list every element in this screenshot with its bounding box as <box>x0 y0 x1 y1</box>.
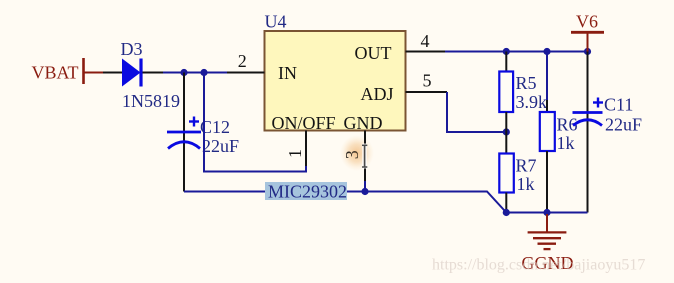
wire ADJ run <box>447 92 506 132</box>
wire bottom right net <box>506 212 587 214</box>
svg-text:GND: GND <box>344 113 383 133</box>
pin 4 (OUT) <box>406 31 446 52</box>
capacitor C11 <box>573 52 643 213</box>
power port V6 <box>571 11 604 51</box>
svg-text:D3: D3 <box>121 39 143 59</box>
pin 1 (ON/OFF) <box>285 131 306 167</box>
node junction input/C12 <box>180 69 187 76</box>
resistor R7 <box>499 132 536 213</box>
label MIC29302 <box>265 182 347 202</box>
svg-text:3.9k: 3.9k <box>516 92 548 112</box>
pin 2 (IN) <box>227 51 265 73</box>
svg-text:VBAT: VBAT <box>32 63 79 83</box>
cursor glow highlight <box>340 135 374 171</box>
power port VBAT <box>32 58 105 84</box>
node junction out/R6 <box>543 48 550 55</box>
node junction out/R5 <box>503 48 510 55</box>
wire ON/OFF run <box>204 73 306 172</box>
svg-text:1N5819: 1N5819 <box>122 91 180 111</box>
svg-text:4: 4 <box>421 31 430 51</box>
svg-text:R7: R7 <box>516 156 537 176</box>
wire GND pin drop <box>364 181 366 192</box>
svg-text:1k: 1k <box>517 174 535 194</box>
svg-text:IN: IN <box>278 63 297 83</box>
regulator U4 body <box>265 11 406 133</box>
node junction out/V6 <box>584 48 591 55</box>
svg-text:2: 2 <box>238 51 247 71</box>
ground GGND <box>522 214 574 273</box>
pin 3 (GND) <box>342 131 365 182</box>
node junction GND/bottom <box>361 188 368 195</box>
svg-text:R5: R5 <box>516 73 537 93</box>
svg-text:1k: 1k <box>557 133 575 153</box>
node junction bottom/GND <box>543 209 550 216</box>
svg-text:ON/OFF: ON/OFF <box>272 113 336 133</box>
pin 5 (ADJ) <box>406 71 448 93</box>
svg-text:MIC29302: MIC29302 <box>268 182 347 202</box>
text cursor I-beam <box>362 144 367 169</box>
node junction ADJ/R5/R7 <box>503 128 510 135</box>
resistor R5 <box>499 52 547 133</box>
wire bottom left net <box>184 192 506 213</box>
capacitor C12 <box>167 73 239 192</box>
svg-text:OUT: OUT <box>355 43 392 63</box>
cursor glow overlay <box>343 139 369 167</box>
svg-text:5: 5 <box>423 71 432 91</box>
svg-text:V6: V6 <box>576 11 598 31</box>
wire input net <box>163 72 228 74</box>
wire output net <box>445 51 588 53</box>
svg-text:U4: U4 <box>265 11 287 31</box>
node junction bottom/R7 <box>503 209 510 216</box>
node junction input/ONOFF <box>200 69 207 76</box>
svg-text:https://blog.csdn.net/bajiaoyu: https://blog.csdn.net/bajiaoyu517 <box>432 257 645 274</box>
resistor R6 <box>540 52 578 213</box>
diode D3 <box>103 39 180 111</box>
svg-text:1: 1 <box>285 149 305 158</box>
svg-text:ADJ: ADJ <box>361 84 394 104</box>
svg-text:C11: C11 <box>604 95 633 115</box>
svg-text:22uF: 22uF <box>202 136 239 156</box>
svg-text:22uF: 22uF <box>605 114 642 134</box>
